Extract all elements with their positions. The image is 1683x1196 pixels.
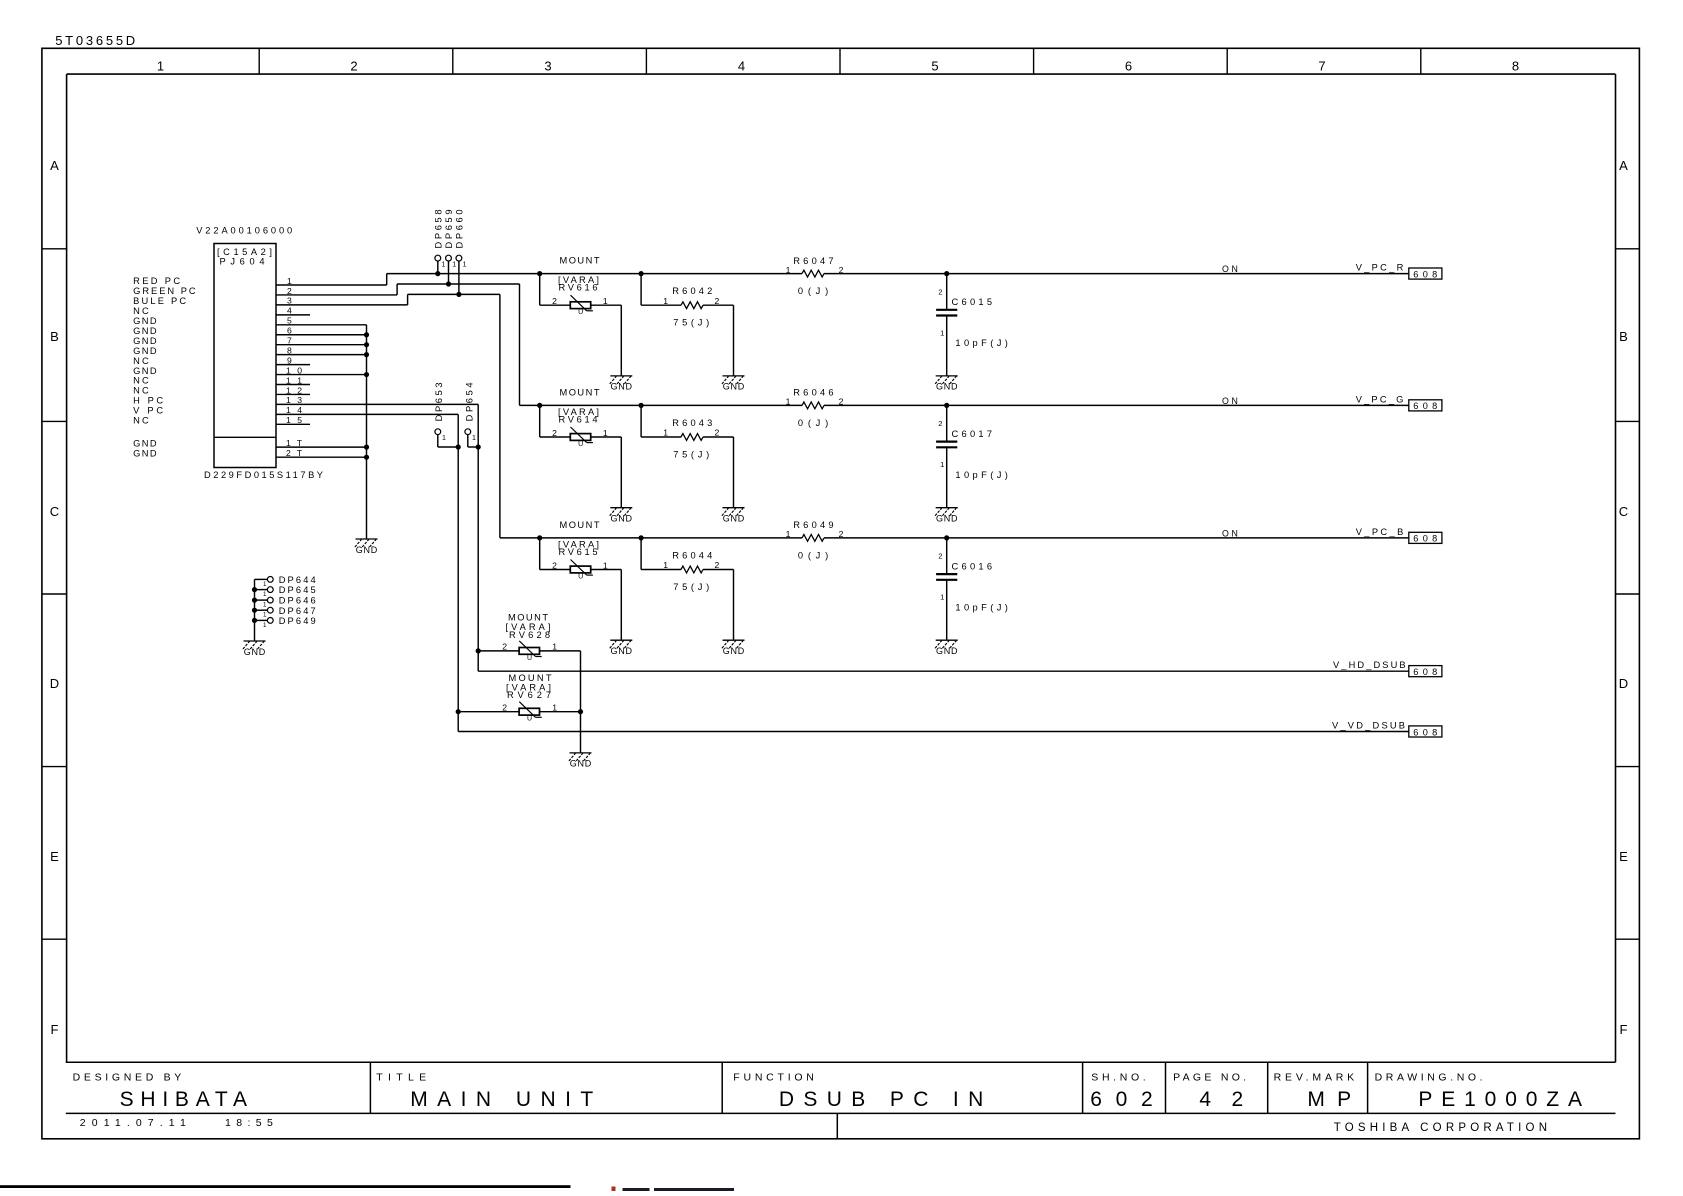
svg-text:DP644: DP644 [279, 575, 316, 585]
svg-text:F: F [51, 1022, 59, 1037]
svg-text:3: 3 [544, 59, 551, 74]
svg-text:1: 1 [663, 428, 668, 438]
svg-text:R6044: R6044 [672, 551, 712, 561]
svg-text:2: 2 [502, 703, 507, 713]
svg-text:A: A [1619, 158, 1628, 173]
resistor R6044 75(J) [639, 535, 734, 640]
svg-text:RV614: RV614 [559, 414, 598, 424]
svg-text:2: 2 [938, 419, 942, 428]
jumper DP654 [464, 382, 480, 449]
jumpers DP644-DP649 [252, 575, 316, 641]
svg-text:REV.MARK: REV.MARK [1274, 1072, 1355, 1084]
svg-text:GND: GND [723, 514, 745, 524]
varistor RV614 [537, 387, 621, 507]
svg-text:DP646: DP646 [279, 596, 316, 606]
svg-text:1: 1 [452, 262, 456, 269]
svg-text:V PC: V PC [133, 406, 163, 416]
svg-text:DP649: DP649 [279, 616, 316, 626]
svg-text:1: 1 [663, 296, 668, 306]
svg-text:1: 1 [442, 435, 446, 442]
pin 15 stub (NC) [276, 423, 310, 425]
svg-text:608: 608 [1413, 727, 1437, 737]
svg-text:E: E [1619, 849, 1628, 864]
svg-text:MOUNT: MOUNT [509, 673, 552, 683]
svg-text:V_HD_DSUB: V_HD_DSUB [1333, 660, 1406, 670]
svg-text:2: 2 [552, 296, 557, 306]
svg-text:GND: GND [133, 448, 157, 458]
jumper DP658 [433, 210, 445, 277]
svg-text:E: E [50, 849, 59, 864]
svg-text:MOUNT: MOUNT [560, 387, 600, 397]
svg-text:V_VD_DSUB: V_VD_DSUB [1332, 721, 1405, 731]
wire V_VD_DSUB row [458, 731, 1409, 733]
ground [610, 640, 633, 656]
svg-text:1: 1 [442, 262, 446, 269]
ground [935, 640, 958, 656]
svg-text:U: U [527, 716, 532, 723]
svg-text:10pF(J): 10pF(J) [955, 603, 1008, 613]
svg-text:5: 5 [931, 59, 938, 74]
svg-text:D: D [1619, 676, 1628, 691]
svg-text:2: 2 [938, 552, 942, 561]
svg-text:U: U [578, 441, 583, 448]
resistor R6042 75(J) [639, 271, 734, 376]
capacitor C6015 10pF [936, 271, 1008, 376]
wire V_PC_B row [500, 537, 802, 539]
svg-text:D229FD015S117BY: D229FD015S117BY [204, 470, 323, 480]
ground [610, 508, 633, 524]
svg-text:C: C [1619, 504, 1628, 519]
svg-text:2: 2 [839, 529, 844, 539]
ground [722, 640, 745, 656]
svg-text:RV616: RV616 [559, 283, 598, 293]
svg-text:DP654: DP654 [464, 382, 474, 421]
svg-text:C6016: C6016 [952, 561, 993, 571]
bottom artifact marks [612, 1187, 616, 1192]
svg-text:1: 1 [940, 593, 944, 602]
wire V_PC_R row [387, 273, 802, 275]
ground [569, 753, 592, 769]
svg-text:2: 2 [938, 287, 942, 296]
pin 12 stub (NC) [276, 393, 310, 395]
svg-text:H PC: H PC [133, 396, 163, 406]
svg-text:MOUNT: MOUNT [508, 612, 548, 622]
svg-text:2: 2 [715, 560, 720, 570]
ground [610, 376, 633, 392]
svg-text:1: 1 [263, 622, 267, 629]
svg-text:GND: GND [133, 438, 157, 448]
svg-text:4: 4 [738, 59, 745, 74]
svg-text:2: 2 [350, 59, 357, 74]
ground [935, 376, 958, 392]
resistor R6043 75(J) [639, 403, 734, 508]
svg-text:1: 1 [263, 581, 267, 588]
pin 4 stub (NC) [276, 314, 310, 316]
varistor RV628 [476, 612, 581, 753]
svg-text:GND: GND [133, 316, 157, 326]
svg-text:R6042: R6042 [672, 286, 712, 296]
svg-text:C6015: C6015 [952, 297, 993, 307]
svg-text:[C15A2]: [C15A2] [217, 247, 272, 257]
svg-text:D: D [50, 676, 59, 691]
wire pin3 BULE staircase [276, 304, 408, 306]
title block [66, 1062, 1616, 1139]
svg-text:1: 1 [786, 529, 791, 539]
svg-text:2: 2 [839, 397, 844, 407]
svg-text:F: F [1620, 1022, 1628, 1037]
svg-text:GND: GND [611, 514, 633, 524]
svg-text:608: 608 [1413, 269, 1437, 279]
svg-text:A: A [50, 158, 59, 173]
capacitor C6016 10pF [936, 535, 1008, 640]
svg-text:RV628: RV628 [509, 630, 550, 640]
svg-text:GND: GND [611, 646, 633, 656]
svg-text:608: 608 [1413, 667, 1437, 677]
svg-text:U: U [527, 655, 532, 662]
svg-text:DP645: DP645 [279, 585, 316, 595]
svg-text:DESIGNED BY: DESIGNED BY [73, 1072, 182, 1084]
svg-text:FUNCTION: FUNCTION [733, 1072, 814, 1084]
svg-text:NC: NC [133, 386, 149, 396]
svg-text:NC: NC [133, 356, 149, 366]
ground [722, 376, 745, 392]
wire GND bus from connector [276, 324, 367, 326]
pin 9 stub (NC) [276, 364, 310, 366]
svg-text:7: 7 [1318, 59, 1325, 74]
ground [722, 508, 745, 524]
row ticks [42, 248, 67, 250]
svg-text:1: 1 [786, 265, 791, 275]
svg-text:R6043: R6043 [672, 418, 712, 428]
svg-text:10pF(J): 10pF(J) [955, 338, 1008, 348]
svg-text:GND: GND [133, 346, 157, 356]
svg-text:2: 2 [502, 642, 507, 652]
bottom scan artifact line [0, 1185, 571, 1188]
jumper DP653 [434, 382, 461, 449]
svg-text:NC: NC [133, 376, 149, 386]
svg-text:DP659: DP659 [444, 210, 454, 249]
svg-text:1: 1 [663, 560, 668, 570]
svg-text:C6017: C6017 [952, 429, 993, 439]
pin 11 stub (NC) [276, 384, 310, 386]
svg-text:2: 2 [839, 265, 844, 275]
svg-text:1: 1 [940, 460, 944, 469]
svg-text:GND: GND [611, 382, 633, 392]
svg-text:2: 2 [715, 428, 720, 438]
svg-text:6: 6 [1125, 59, 1132, 74]
node V_VD_DSUB output [1409, 726, 1442, 737]
svg-text:GND: GND [936, 382, 958, 392]
wire pin2 GREEN staircase [276, 294, 397, 296]
svg-text:1: 1 [263, 612, 267, 619]
svg-text:MOUNT: MOUNT [560, 256, 600, 266]
svg-text:B: B [1619, 329, 1628, 344]
column ticks [258, 48, 260, 74]
wire pin1 RED staircase [276, 284, 387, 286]
svg-text:DP647: DP647 [279, 606, 316, 616]
svg-text:608: 608 [1413, 401, 1437, 411]
wire pin13 H PC to H vertical [276, 403, 478, 405]
resistor R6047 0(J) series [786, 256, 844, 296]
svg-text:R6049: R6049 [793, 520, 833, 530]
svg-text:10pF(J): 10pF(J) [955, 470, 1008, 480]
svg-text:DP653: DP653 [434, 382, 444, 421]
svg-text:R6047: R6047 [793, 256, 833, 266]
svg-text:U: U [578, 309, 583, 316]
svg-text:2: 2 [552, 561, 557, 571]
varistor RV616 [537, 256, 621, 376]
svg-text:2: 2 [715, 296, 720, 306]
svg-text:R6046: R6046 [793, 388, 833, 398]
capacitor C6017 10pF [936, 403, 1008, 508]
ground [355, 539, 378, 555]
svg-text:1: 1 [940, 328, 944, 337]
svg-text:DP660: DP660 [454, 210, 464, 249]
svg-text:GND: GND [244, 647, 266, 657]
jumper DP659 [444, 210, 456, 287]
svg-text:NC: NC [133, 306, 149, 316]
border frame inner [67, 73, 1616, 75]
svg-text:B: B [50, 329, 59, 344]
svg-text:8: 8 [1512, 59, 1519, 74]
node V_HD_DSUB output [1409, 666, 1442, 677]
resistor R6049 0(J) series [786, 520, 844, 560]
svg-text:C: C [50, 504, 59, 519]
svg-text:GND: GND [356, 545, 378, 555]
svg-text:PAGE NO.: PAGE NO. [1173, 1072, 1246, 1084]
svg-text:1: 1 [157, 59, 164, 74]
svg-text:GND: GND [133, 336, 157, 346]
svg-text:GND: GND [570, 759, 592, 769]
svg-text:U: U [578, 574, 583, 581]
svg-text:GREEN PC: GREEN PC [133, 286, 196, 296]
svg-text:MAIN UNIT: MAIN UNIT [410, 1088, 593, 1111]
wire pin14 V PC to V vertical [276, 413, 458, 415]
svg-text:NC: NC [133, 416, 149, 426]
svg-text:GND: GND [936, 514, 958, 524]
svg-text:MOUNT: MOUNT [560, 520, 600, 530]
svg-text:1: 1 [786, 397, 791, 407]
svg-text:GND: GND [133, 366, 157, 376]
varistor RV615 [537, 520, 621, 640]
svg-text:1: 1 [463, 262, 467, 269]
svg-text:1: 1 [263, 602, 267, 609]
ground [243, 641, 266, 657]
svg-text:602: 602 [1090, 1088, 1153, 1111]
svg-text:RV615: RV615 [559, 547, 598, 557]
svg-text:1: 1 [472, 435, 476, 442]
svg-text:GND: GND [723, 382, 745, 392]
svg-text:1: 1 [263, 591, 267, 598]
jumper DP660 [454, 210, 466, 298]
svg-text:GND: GND [133, 326, 157, 336]
resistor R6046 0(J) series [786, 388, 844, 428]
varistor RV627 [456, 673, 584, 723]
ground [935, 508, 958, 524]
wire V_PC_G row [520, 404, 803, 406]
svg-text:GND: GND [723, 646, 745, 656]
svg-text:2: 2 [552, 428, 557, 438]
svg-text:GND: GND [936, 646, 958, 656]
svg-text:DP658: DP658 [433, 210, 443, 249]
svg-text:608: 608 [1413, 534, 1437, 544]
connector PJ604 (D-sub 15) [196, 226, 323, 480]
wire V_HD_DSUB row [478, 670, 1409, 672]
